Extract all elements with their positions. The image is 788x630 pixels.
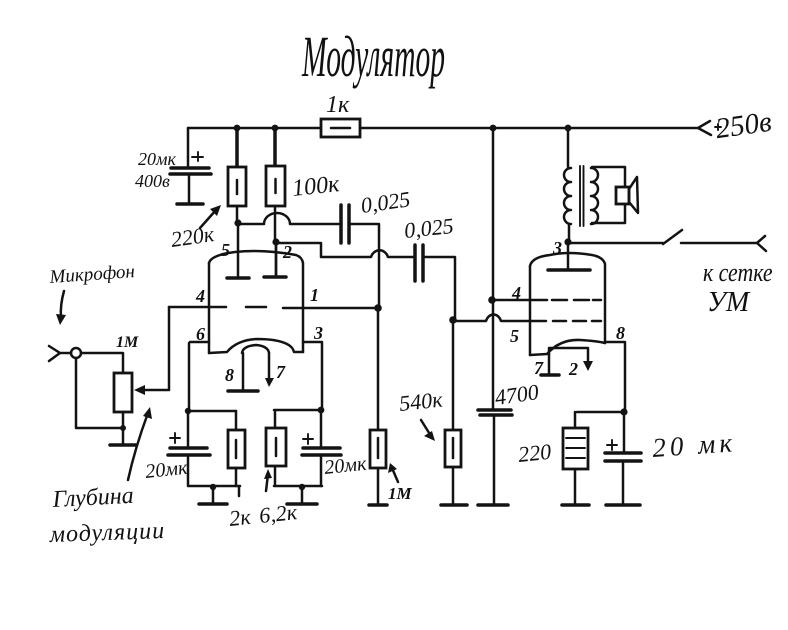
svg-text:400в: 400в (135, 171, 170, 191)
svg-text:1к: 1к (326, 92, 350, 118)
svg-text:250в: 250в (714, 106, 774, 146)
svg-text:0,025: 0,025 (403, 213, 455, 243)
svg-text:2: 2 (568, 359, 578, 379)
svg-text:7: 7 (276, 362, 286, 382)
svg-text:5: 5 (221, 240, 230, 260)
svg-text:4: 4 (195, 286, 205, 306)
svg-text:4: 4 (511, 283, 521, 303)
svg-text:100к: 100к (291, 171, 341, 202)
svg-text:УМ: УМ (707, 287, 751, 318)
svg-text:20мк: 20мк (144, 457, 189, 483)
svg-text:Модулятор: Модулятор (301, 24, 445, 88)
svg-text:1: 1 (310, 285, 319, 305)
svg-text:3: 3 (313, 323, 323, 343)
svg-text:1М: 1М (388, 484, 413, 503)
svg-text:220: 220 (517, 439, 552, 467)
svg-text:20мк: 20мк (138, 149, 176, 169)
svg-text:4700: 4700 (493, 379, 540, 410)
svg-text:8: 8 (225, 365, 234, 385)
svg-text:модуляции: модуляции (48, 518, 165, 548)
svg-text:2к: 2к (228, 504, 252, 531)
svg-text:3: 3 (552, 238, 562, 258)
svg-text:6,2к: 6,2к (258, 499, 299, 528)
svg-text:20 мк: 20 мк (651, 427, 737, 463)
svg-text:Глубина: Глубина (51, 483, 134, 513)
svg-text:0,025: 0,025 (359, 186, 411, 218)
svg-text:5: 5 (510, 326, 519, 346)
svg-text:1М: 1М (116, 334, 139, 351)
svg-text:2: 2 (282, 242, 292, 262)
svg-text:к сетке: к сетке (703, 259, 773, 287)
svg-text:6: 6 (196, 324, 205, 344)
svg-text:20мк: 20мк (323, 453, 368, 479)
svg-text:220к: 220к (169, 221, 216, 252)
svg-text:Микрофон: Микрофон (48, 261, 136, 288)
svg-text:540к: 540к (398, 387, 444, 416)
svg-text:7: 7 (534, 358, 544, 378)
svg-text:8: 8 (616, 323, 625, 343)
